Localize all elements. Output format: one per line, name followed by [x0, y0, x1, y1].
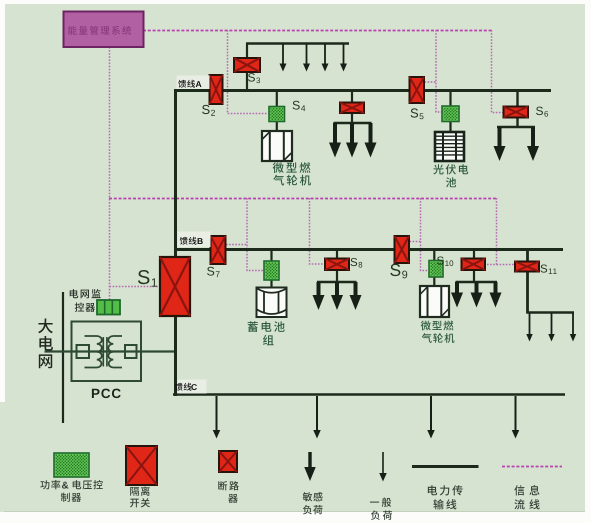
- info dotted branch to S1: [110, 286, 161, 288]
- wire branch to S4 / micro gas turbine 1: [276, 90, 278, 131]
- label S8: [351, 258, 363, 268]
- wire branch to PV controller: [449, 90, 451, 132]
- power & voltage controller PV: [442, 106, 459, 122]
- info dotted drop to S6: [492, 30, 504, 113]
- label 微型燃气轮机 #2: [421, 321, 454, 331]
- grid monitor device: [97, 300, 120, 315]
- label 电网监控器: [70, 289, 101, 298]
- wire branch to S3 and small load group: [246, 44, 248, 91]
- transformer in PCC: [77, 336, 137, 368]
- legend general load arrow: [379, 452, 387, 482]
- sensitive load arrow group 2-2: [527, 127, 539, 161]
- label S2: [202, 105, 215, 116]
- PCC label: [92, 389, 121, 399]
- legend power & voltage controller symbol: [54, 453, 89, 477]
- general load arrow A2: [303, 44, 310, 72]
- general load arrow C3: [427, 396, 435, 439]
- legend label 隔离开关: [130, 486, 150, 495]
- utility grid bus: [62, 292, 64, 423]
- feeder A label 馈线A: [178, 80, 195, 88]
- wire branch to S10 / micro gas turbine 2: [433, 250, 435, 286]
- PCC box: [72, 322, 142, 382]
- label S9: [390, 264, 407, 279]
- isolating switch S1: [160, 257, 190, 316]
- isolating switch S7: [211, 236, 226, 264]
- feeder B bus line: [175, 248, 563, 251]
- information flow dashed trunk line 2: [109, 198, 497, 200]
- legend circuit breaker symbol: [219, 451, 237, 472]
- wire branch to S6 load group: [516, 90, 518, 127]
- general load arrow S11-3: [570, 313, 577, 342]
- sensitive load arrow group 4-3: [490, 282, 502, 308]
- sensitive load arrow group 3-2: [331, 282, 343, 310]
- label S6: [536, 107, 548, 117]
- legend label 一般负荷: [370, 498, 391, 507]
- feeder A label background patch: [177, 76, 210, 90]
- micro gas turbine 1: [262, 131, 292, 161]
- photovoltaic battery panel: [435, 132, 464, 161]
- isolating switch S2: [210, 75, 223, 104]
- label S5: [411, 108, 424, 119]
- label 大电网: [38, 318, 53, 333]
- legend power transmission line symbol: [412, 465, 479, 468]
- circuit breaker S6: [504, 107, 529, 118]
- general load arrow A3: [322, 44, 329, 72]
- power & voltage controller battery: [264, 261, 279, 280]
- feeder A bus line: [175, 89, 551, 92]
- wire branch to battery controller: [270, 250, 272, 287]
- info dotted drop to S8: [310, 198, 326, 264]
- label S11: [541, 264, 557, 274]
- legend sensitive load arrow: [304, 452, 316, 481]
- EMS label 能量管理系统: [68, 26, 131, 35]
- label 光伏电池: [433, 164, 468, 174]
- micro gas turbine 2: [420, 286, 449, 317]
- feeder C label background patch: [178, 380, 207, 394]
- general load arrow C2: [313, 396, 321, 439]
- wire branch to S8 load group: [336, 250, 338, 282]
- isolating switch S9: [395, 236, 410, 263]
- label S1: [138, 270, 157, 287]
- circuit breaker S3: [234, 58, 260, 72]
- wire branch to feeder B breaker load: [473, 250, 475, 282]
- sensitive load arrow group 4-1: [451, 282, 463, 308]
- main vertical bus: [174, 89, 177, 396]
- energy management system box: [64, 12, 144, 48]
- label S4: [293, 101, 306, 111]
- label 蓄电池组: [248, 321, 285, 332]
- sensitive load arrow group 1-1: [329, 123, 341, 158]
- general load arrow S11-2: [548, 313, 555, 342]
- wire branch to feeder A breaker load: [351, 90, 353, 123]
- info dotted drop to S5 and PV controller: [436, 30, 442, 112]
- feeder C bus line: [173, 393, 565, 396]
- sensitive load arrow group 1-2: [346, 123, 358, 158]
- general load arrow S11-1: [526, 313, 533, 342]
- feeder B label 馈线B: [180, 237, 197, 245]
- general load arrow C1: [213, 396, 221, 439]
- info dotted drop to controller S4: [228, 30, 270, 114]
- label 微型燃气轮机 #1: [273, 162, 311, 173]
- isolating switch S5: [410, 77, 425, 103]
- circuit breaker feeder A load: [340, 103, 364, 114]
- legend label 功率&电压控制器: [40, 480, 60, 489]
- legend isolating switch symbol: [126, 446, 157, 485]
- general load arrow A4: [340, 44, 347, 72]
- info dotted drop from EMS to grid monitor: [109, 47, 111, 300]
- sensitive load arrow group 1-3: [365, 123, 377, 158]
- information flow dashed trunk line 1 from EMS: [143, 30, 493, 32]
- label S3: [248, 73, 260, 83]
- storage battery cylinder: [257, 288, 287, 318]
- legend information flow line symbol: [502, 466, 562, 468]
- sensitive load arrow group 2-1: [494, 127, 506, 161]
- general load arrow C4: [512, 396, 520, 439]
- legend label 敏感负荷: [303, 492, 323, 501]
- circuit breaker S8: [325, 259, 349, 271]
- PCC horizontal line: [45, 350, 175, 352]
- feeder B label background patch: [178, 232, 211, 248]
- circuit breaker feeder B load: [462, 259, 486, 271]
- power & voltage controller S4: [269, 107, 285, 122]
- feeder C label 馈线C: [175, 383, 192, 391]
- legend label 信息流线: [514, 485, 539, 495]
- circuit breaker S11: [515, 262, 539, 272]
- legend label 电力传输线: [428, 485, 463, 495]
- wire branch to S11 and corner load group: [526, 250, 529, 314]
- sensitive load arrow group 3-1: [313, 282, 325, 310]
- legend label 断路器: [218, 481, 239, 490]
- label S10: [437, 256, 453, 266]
- sensitive load arrow group 4-2: [471, 282, 483, 308]
- power & voltage controller S10: [429, 261, 443, 278]
- info dotted drop to S7 and battery controller: [247, 198, 264, 271]
- info dotted drop to S9 and controller S10: [421, 198, 430, 271]
- sensitive load arrow group 3-3: [350, 282, 362, 310]
- info dotted drop to feeder B breaker and S11: [485, 198, 497, 265]
- general load arrow A1: [280, 44, 287, 72]
- label S7: [207, 267, 220, 277]
